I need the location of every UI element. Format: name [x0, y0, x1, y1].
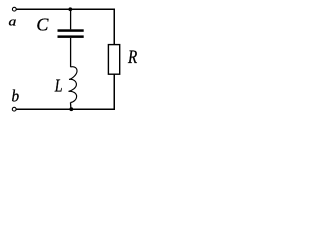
resistor R body	[108, 45, 119, 75]
svg-text:a: a	[9, 14, 17, 28]
node junction top (C branch tap)	[68, 7, 72, 11]
capacitor C top plate	[58, 29, 84, 32]
node junction bottom (L branch tap)	[69, 107, 73, 111]
wire right: top corner down to resistor	[113, 9, 115, 46]
svg-text:C: C	[36, 15, 49, 35]
svg-text:L: L	[54, 75, 63, 95]
wire: top node down to capacitor	[70, 9, 72, 29]
wire top: a to top-right corner	[17, 8, 116, 10]
wire bottom: b to bottom-right corner	[16, 108, 115, 110]
terminal a	[12, 7, 16, 11]
wire: inductor to bottom node	[70, 102, 72, 109]
capacitor C bottom plate	[58, 35, 84, 38]
terminal b	[12, 107, 16, 111]
wire right: resistor down to bottom corner	[113, 74, 115, 110]
svg-text:b: b	[12, 86, 20, 105]
svg-text:R: R	[127, 47, 137, 68]
wire: capacitor to inductor	[70, 38, 72, 67]
inductor L coil (3 loops)	[69, 67, 78, 103]
